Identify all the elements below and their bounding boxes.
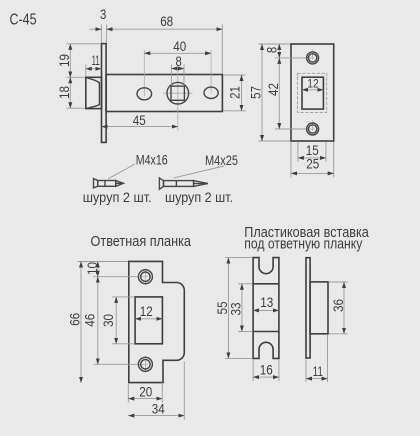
spindle square hole xyxy=(171,86,184,100)
dimension 11 (insert) xyxy=(306,335,328,382)
svg-text:30: 30 xyxy=(101,314,116,327)
dimension 30 xyxy=(101,297,134,344)
dimension 57 xyxy=(248,44,290,141)
svg-text:C-45: C-45 xyxy=(10,12,37,29)
svg-text:3: 3 xyxy=(100,7,106,22)
svg-text:11: 11 xyxy=(313,364,323,379)
strike bottom screw hole xyxy=(137,356,153,373)
dimension 45 xyxy=(102,113,178,128)
centerline through left oval xyxy=(143,50,145,97)
latch bolt (side view) xyxy=(86,77,102,108)
dimension 11 (bolt width) xyxy=(86,53,102,76)
leader M4x25 xyxy=(174,166,224,178)
insert middle section lines xyxy=(253,283,279,285)
dimension 3 xyxy=(90,7,115,43)
strike top screw hole xyxy=(137,268,153,286)
strike plate latch hole xyxy=(135,297,162,344)
svg-text:66: 66 xyxy=(67,313,82,326)
faceplate edge (side view) xyxy=(102,44,107,143)
dashed insert outline xyxy=(298,73,327,112)
svg-text:под ответную планку: под ответную планку xyxy=(244,235,362,252)
screw M4x16 xyxy=(94,179,124,188)
svg-text:46: 46 xyxy=(82,314,97,327)
svg-text:8: 8 xyxy=(265,47,280,53)
insert side view plate xyxy=(306,258,310,358)
svg-text:шуруп 2 шт.: шуруп 2 шт. xyxy=(83,189,152,205)
svg-text:18: 18 xyxy=(57,86,72,99)
left oval hole xyxy=(137,88,152,100)
svg-text:M4x16: M4x16 xyxy=(136,151,168,167)
dimension 15 xyxy=(298,142,326,162)
screw M4x25 xyxy=(159,178,208,189)
insert front view outline xyxy=(253,258,279,359)
centerline through right oval xyxy=(210,50,212,94)
bottom screw hole xyxy=(303,121,319,136)
dimension 12 (faceplate) xyxy=(302,76,323,90)
svg-text:19: 19 xyxy=(57,54,72,67)
dimension 25 xyxy=(291,142,334,178)
dimension 16 xyxy=(253,360,279,382)
dimension 55 xyxy=(215,258,252,359)
svg-text:34: 34 xyxy=(152,402,165,417)
centerline through spindle hole xyxy=(177,65,179,131)
latch body (side view) xyxy=(106,75,222,112)
dimension 66 xyxy=(67,262,82,383)
spindle hole circle xyxy=(167,82,189,104)
svg-text:Ответная планка: Ответная планка xyxy=(91,233,192,250)
top screw hole xyxy=(303,50,319,64)
svg-text:12: 12 xyxy=(140,304,153,319)
svg-text:8: 8 xyxy=(176,54,182,69)
svg-text:68: 68 xyxy=(160,14,173,29)
faceplate outline xyxy=(291,44,334,141)
dimension 12 (strike) xyxy=(135,304,162,319)
leader M4x16 xyxy=(108,164,135,179)
insert side view block xyxy=(310,282,328,334)
svg-text:40: 40 xyxy=(173,39,186,54)
dimension 40 xyxy=(144,39,211,54)
svg-text:45: 45 xyxy=(133,113,146,128)
dimension 8 (square width, top) xyxy=(171,54,184,85)
latch opening xyxy=(302,77,323,109)
svg-text:42: 42 xyxy=(266,83,281,96)
dimension 19 xyxy=(57,44,101,78)
dimension 13 xyxy=(253,295,279,310)
strike plate outline xyxy=(129,261,185,382)
svg-text:21: 21 xyxy=(228,86,243,99)
dimension 33 xyxy=(229,284,252,332)
dimension 20 xyxy=(128,384,162,403)
dimension 34 xyxy=(128,362,184,420)
svg-text:25: 25 xyxy=(306,157,319,172)
dimension 21 xyxy=(224,75,246,111)
svg-text:57: 57 xyxy=(248,86,263,99)
dimension 46 xyxy=(82,277,138,365)
dimension 68 xyxy=(107,14,223,74)
dimension 36 xyxy=(329,282,348,334)
dimension 18 xyxy=(57,77,85,108)
svg-text:33: 33 xyxy=(229,303,244,316)
svg-text:13: 13 xyxy=(260,295,273,310)
svg-text:шуруп 2 шт.: шуруп 2 шт. xyxy=(165,189,233,205)
right oval hole xyxy=(204,87,218,98)
svg-text:36: 36 xyxy=(331,299,346,312)
dimension 42 xyxy=(266,58,306,129)
dimension 8 (faceplate) xyxy=(259,44,307,58)
svg-text:12: 12 xyxy=(307,76,319,90)
dimension 10 xyxy=(78,262,139,277)
svg-text:10: 10 xyxy=(85,262,100,275)
svg-text:20: 20 xyxy=(139,385,152,400)
svg-text:11: 11 xyxy=(92,53,100,68)
svg-text:16: 16 xyxy=(260,363,273,378)
svg-text:M4x25: M4x25 xyxy=(205,152,238,168)
